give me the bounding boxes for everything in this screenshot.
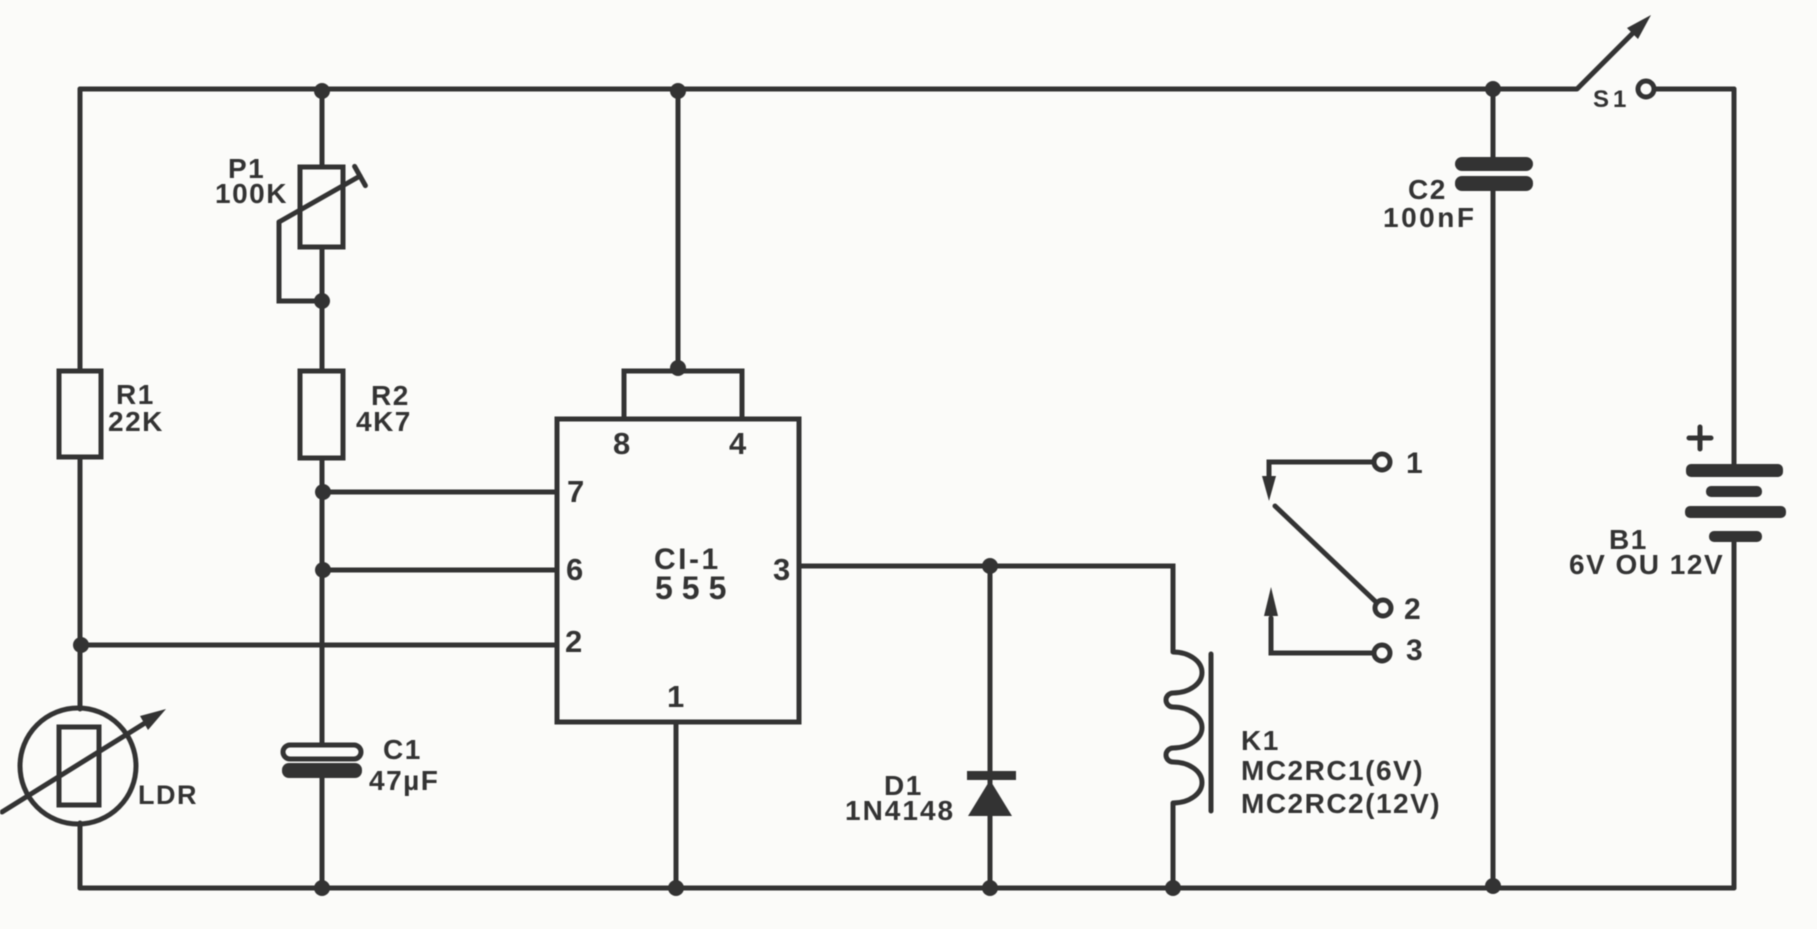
wire R2 bottom to C1 bbox=[320, 458, 325, 746]
op-amp U1 IC CI-1 555 bbox=[557, 419, 799, 722]
svg-text:1N4148: 1N4148 bbox=[845, 795, 955, 826]
wire pins 8-4 bracket bbox=[624, 371, 742, 419]
wire pin3 to relay coil bbox=[799, 566, 1173, 652]
wire D1 branch bbox=[988, 566, 993, 888]
node top Vcc bbox=[670, 83, 686, 99]
wire C2 bottom to rail bbox=[1491, 190, 1496, 886]
svg-text:MC2RC2(12V): MC2RC2(12V) bbox=[1241, 788, 1441, 819]
wire P1 bypass loop bbox=[279, 222, 322, 301]
svg-text:22K: 22K bbox=[108, 406, 164, 437]
svg-text:6: 6 bbox=[566, 552, 585, 587]
node pin1 bottom bbox=[668, 880, 684, 896]
node C2 bottom bbox=[1485, 878, 1501, 894]
wire Vcc drop to IC bracket bbox=[676, 91, 681, 371]
svg-text:2: 2 bbox=[565, 624, 584, 659]
LDR bbox=[2, 708, 198, 824]
svg-text:8: 8 bbox=[613, 426, 632, 461]
svg-text:4K7: 4K7 bbox=[356, 406, 412, 437]
svg-text:4: 4 bbox=[729, 426, 748, 461]
wire pin1 to bottom rail bbox=[674, 722, 679, 888]
wire P1 to R2 bbox=[320, 247, 325, 371]
relay contact 3 bbox=[1264, 587, 1424, 667]
resistor R2 bbox=[300, 371, 343, 458]
node pin3 D1 bbox=[982, 558, 998, 574]
wire P1 top drop bbox=[320, 89, 325, 167]
svg-text:3: 3 bbox=[1406, 634, 1424, 667]
svg-text:555: 555 bbox=[655, 570, 735, 606]
svg-text:MC2RC1(6V): MC2RC1(6V) bbox=[1241, 755, 1424, 786]
potentiometer P1 bbox=[215, 153, 365, 247]
svg-text:C1: C1 bbox=[383, 734, 422, 765]
wire left rail LDR to bottom bbox=[78, 823, 83, 888]
wire S1 to right corner bbox=[1654, 87, 1734, 92]
wire left rail R1 to LDR bbox=[78, 457, 83, 709]
wire pin2 bbox=[81, 643, 557, 648]
svg-text:2: 2 bbox=[1404, 593, 1422, 626]
svg-text:7: 7 bbox=[567, 474, 586, 509]
diode D1 bbox=[845, 770, 1016, 826]
relay contact 2 bbox=[1375, 593, 1422, 626]
relay coil K1 bbox=[1166, 652, 1441, 819]
node bracket bbox=[670, 360, 686, 376]
svg-text:100K: 100K bbox=[215, 178, 288, 209]
node pin6 bbox=[315, 562, 331, 578]
node P1 wiper bbox=[314, 293, 330, 309]
node pin2 left bbox=[73, 637, 89, 653]
capacitor C1 bbox=[282, 734, 439, 796]
svg-text:K1: K1 bbox=[1241, 725, 1280, 756]
svg-text:1: 1 bbox=[667, 679, 686, 714]
svg-text:S1: S1 bbox=[1593, 86, 1630, 113]
node top C2 bbox=[1485, 81, 1501, 97]
resistor R1 bbox=[59, 371, 101, 457]
wire C1 to bottom rail bbox=[320, 777, 325, 888]
relay contact 1 bbox=[1262, 447, 1424, 501]
svg-text:LDR: LDR bbox=[138, 780, 198, 810]
svg-text:3: 3 bbox=[773, 552, 792, 587]
svg-text:100nF: 100nF bbox=[1383, 202, 1476, 233]
wire pin7 bbox=[323, 490, 557, 495]
wire right rail lower bbox=[1732, 542, 1737, 888]
relay armature bbox=[1275, 506, 1376, 602]
wire coil bottom bbox=[1171, 803, 1176, 888]
node top P1 bbox=[314, 83, 330, 99]
node pin7 bbox=[315, 484, 331, 500]
wire top rail bbox=[80, 87, 1576, 92]
wire bottom rail bbox=[80, 886, 1734, 891]
svg-text:1: 1 bbox=[1406, 447, 1424, 480]
capacitor C2 bbox=[1383, 157, 1533, 233]
node D1 bottom bbox=[982, 880, 998, 896]
wire right rail upper bbox=[1732, 89, 1737, 464]
wire left rail upper bbox=[78, 89, 83, 371]
svg-text:47µF: 47µF bbox=[369, 765, 439, 796]
wire pin6 bbox=[323, 568, 557, 573]
svg-text:6V OU 12V: 6V OU 12V bbox=[1569, 549, 1724, 580]
switch S1 bbox=[1577, 15, 1654, 113]
node K1 bottom bbox=[1165, 880, 1181, 896]
battery B1 bbox=[1569, 427, 1786, 580]
svg-text:C2: C2 bbox=[1408, 174, 1447, 205]
wire C2 top drop bbox=[1491, 89, 1496, 158]
node C1 bottom bbox=[314, 880, 330, 896]
